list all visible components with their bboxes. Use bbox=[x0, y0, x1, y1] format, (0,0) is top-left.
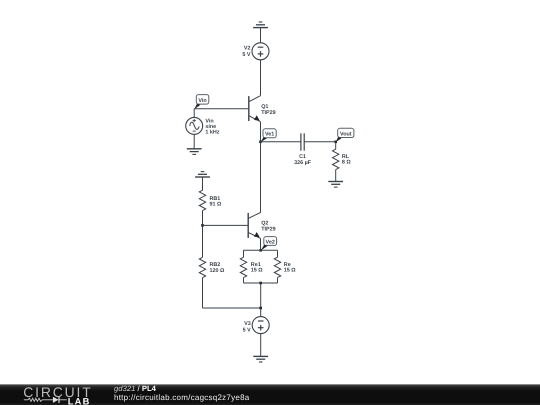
ground (top, above V2, flipped) bbox=[253, 22, 268, 43]
svg-text:V3: V3 bbox=[244, 321, 251, 327]
wire Q2 base bbox=[203, 224, 249, 226]
svg-text:Q1: Q1 bbox=[261, 104, 268, 110]
voltage source Vin (sine) bbox=[186, 117, 220, 135]
svg-text:91 Ω: 91 Ω bbox=[210, 202, 222, 208]
transistor Q1 bbox=[249, 96, 276, 122]
junction Ve1 bbox=[259, 141, 262, 144]
wire Ve1 to C1 left plate bbox=[261, 141, 301, 143]
svg-text:V2: V2 bbox=[244, 45, 251, 51]
footer bar bbox=[0, 384, 540, 405]
node Ve1 bbox=[261, 129, 277, 142]
voltage source V2 bbox=[242, 43, 269, 60]
wire V3 node to source bbox=[260, 308, 262, 317]
resistor Re1 bbox=[240, 250, 263, 283]
svg-text:1 kHz: 1 kHz bbox=[205, 130, 219, 136]
ground (below V3) bbox=[253, 356, 268, 362]
wire C1 right plate to Vout node bbox=[304, 141, 336, 143]
svg-text:TIP29: TIP29 bbox=[261, 110, 275, 116]
svg-text:326 µF: 326 µF bbox=[294, 160, 312, 166]
junction Ve2 bbox=[259, 249, 262, 252]
junction bottom rail bbox=[259, 282, 262, 285]
node Ve2 bbox=[261, 237, 277, 251]
wire V3 to ground bbox=[260, 334, 262, 357]
voltage source V3 bbox=[243, 317, 270, 334]
resistor RB1 bbox=[199, 177, 222, 225]
transistor Q2 bbox=[248, 213, 275, 239]
svg-text:TIP29: TIP29 bbox=[261, 226, 275, 232]
wire Ve1 down to Q2 collector bbox=[260, 142, 262, 213]
ground (below Vin source) bbox=[187, 149, 202, 155]
wire bottom rail to V3 node bbox=[260, 283, 262, 308]
ground (top of RB1, flipped) bbox=[195, 172, 210, 177]
svg-text:15 Ω: 15 Ω bbox=[284, 268, 296, 274]
node Vin bbox=[194, 95, 209, 110]
wire Q1 base bbox=[194, 108, 249, 110]
svg-text:http://circuitlab.com/cagcsq2z: http://circuitlab.com/cagcsq2z7ye8a bbox=[114, 393, 250, 402]
node Vout bbox=[336, 128, 354, 142]
capacitor C1 bbox=[294, 133, 312, 166]
svg-text:Vout: Vout bbox=[340, 131, 352, 137]
svg-text:Vin: Vin bbox=[198, 98, 206, 104]
wire Q2 emitter to node Ve2 bbox=[260, 238, 262, 250]
junction Vout bbox=[334, 141, 337, 144]
svg-text:LAB: LAB bbox=[68, 397, 91, 405]
svg-text:15 Ω: 15 Ω bbox=[251, 268, 263, 274]
ground (below RL) bbox=[328, 182, 343, 188]
wire Ve2 rail top bbox=[244, 249, 278, 251]
wire Q1 emitter to node Ve1 bbox=[260, 122, 262, 142]
logo LAB text bbox=[68, 397, 91, 405]
svg-text:Q2: Q2 bbox=[261, 220, 268, 226]
wire Vin node to source bbox=[193, 109, 195, 118]
svg-text:5 V: 5 V bbox=[243, 327, 251, 333]
footer title gd321 / PL4 bbox=[114, 384, 157, 393]
resistor RB2 bbox=[199, 257, 225, 308]
logo CIRCUIT text bbox=[23, 384, 92, 400]
resistor RL bbox=[333, 142, 352, 181]
wire RB2 top bbox=[202, 225, 204, 257]
svg-text:Ve2: Ve2 bbox=[266, 239, 275, 245]
junction RB1/RB2/base bbox=[201, 224, 204, 227]
resistor Re bbox=[274, 250, 296, 283]
wire V2 bottom to Q1 collector bbox=[260, 60, 262, 96]
svg-text:Ve1: Ve1 bbox=[265, 132, 274, 138]
svg-text:120 Ω: 120 Ω bbox=[210, 268, 225, 274]
footer url bbox=[114, 393, 250, 402]
svg-text:8 Ω: 8 Ω bbox=[342, 160, 351, 166]
wire Re rail bottom bbox=[244, 282, 278, 284]
wire Vin source to ground bbox=[193, 134, 195, 148]
logo resistor-diode icon bbox=[24, 397, 67, 403]
svg-text:gd321 / PL4: gd321 / PL4 bbox=[114, 384, 157, 393]
junction V3 node bbox=[259, 307, 262, 310]
svg-text:5 V: 5 V bbox=[242, 52, 250, 58]
wire bottom horizontal RB2 to V3 bbox=[203, 307, 261, 309]
